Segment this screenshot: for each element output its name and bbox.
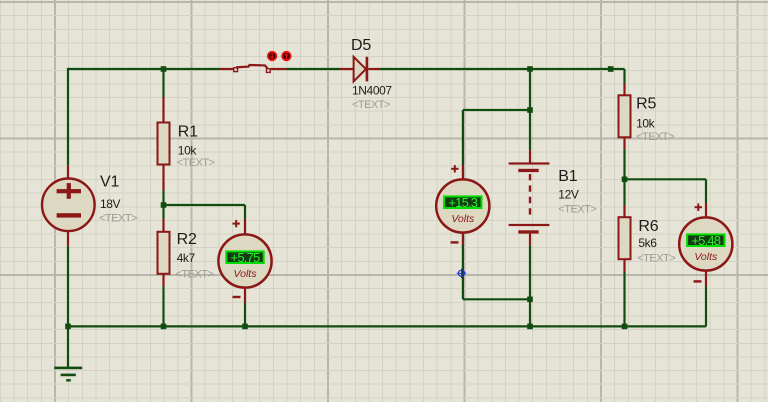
value 4k7 (177, 251, 196, 265)
wire V1 top lead vertical (67, 68, 69, 178)
label R2 TEXT placeholder (175, 269, 213, 281)
svg-text:R1: R1 (178, 124, 198, 141)
node junction VM2 return joins B1 net (527, 297, 533, 303)
label R6 (638, 218, 658, 235)
wire R2 top lead (162, 205, 164, 232)
origin marker (blue) on VM2 return wire (457, 269, 467, 279)
wire R5 top lead (623, 69, 625, 96)
svg-text:D5: D5 (351, 37, 371, 54)
wire V1 bottom lead (67, 232, 69, 327)
value 10k (R5) (636, 117, 656, 131)
svg-text:5k6: 5k6 (638, 236, 657, 250)
wire B1 bottom lead vertical (529, 234, 531, 327)
voltmeter VM2 plus mark (451, 165, 458, 172)
wire R5 bottom lead (623, 137, 625, 179)
diode D5 cathode lead (368, 68, 380, 70)
svg-text:12V: 12V (558, 188, 579, 202)
voltage source V1 (42, 179, 95, 232)
voltmeter VM1 minus mark (233, 296, 241, 298)
label R5 (636, 96, 656, 113)
label B1 TEXT placeholder (558, 204, 596, 216)
voltmeter VM1 plus mark (233, 220, 240, 227)
ground symbol (54, 326, 82, 381)
voltmeter VM1 (218, 234, 271, 287)
wire R6 top lead (623, 179, 625, 217)
label D5 TEXT placeholder (352, 99, 390, 111)
value 10k (R1) (178, 144, 198, 158)
label D5 (351, 37, 371, 54)
voltmeter VM3 plus mark (695, 204, 702, 211)
wire B1 top lead vertical (529, 69, 531, 163)
svg-text:<TEXT>: <TEXT> (175, 269, 213, 281)
svg-text:R5: R5 (636, 96, 656, 113)
svg-text:<TEXT>: <TEXT> (99, 213, 137, 225)
wire R6 bottom lead (623, 259, 625, 326)
wire R2 bottom lead (162, 273, 164, 326)
svg-text:<TEXT>: <TEXT> (177, 157, 215, 169)
diode D5 anode lead (340, 68, 354, 70)
label R6 TEXT placeholder (637, 253, 675, 265)
svg-text:<TEXT>: <TEXT> (637, 253, 675, 265)
svg-text:10k: 10k (636, 117, 656, 131)
wire top horizontal net from V1 to R5 (68, 68, 625, 70)
battery B1 (509, 162, 550, 233)
value 12V (558, 188, 579, 202)
value 5k6 (638, 236, 657, 250)
value 18V (100, 197, 121, 211)
label R1 TEXT placeholder (177, 157, 215, 169)
wire R1 top lead (162, 69, 164, 123)
svg-text:Volts: Volts (234, 268, 258, 280)
label R2 (177, 231, 197, 248)
svg-text:R2: R2 (177, 231, 197, 248)
switch SW1 actuator button down-arrow (268, 52, 276, 60)
node junction R5/R6/VM3 (622, 177, 628, 183)
svg-text:Volts: Volts (694, 251, 718, 263)
svg-text:+15.3: +15.3 (448, 195, 477, 210)
voltmeter VM2 (436, 179, 489, 232)
resistor R1 (158, 123, 170, 165)
wire R1 bottom lead (162, 165, 164, 206)
node junction R2 bottom on bottom net (161, 324, 167, 330)
svg-text:<TEXT>: <TEXT> (636, 131, 674, 143)
wire VM1 bottom lead (244, 288, 246, 326)
wire from B1 branch to VM2 top (463, 110, 530, 180)
label V1 TEXT placeholder (99, 213, 137, 225)
node junction B1 branch on top wire (527, 66, 533, 72)
wire VM2 bottom lead and return to B1 net (463, 233, 530, 299)
resistor R2 (158, 232, 170, 274)
node junction near R5 corner on top wire (608, 66, 614, 72)
voltmeter VM2 minus mark (451, 241, 459, 243)
node junction B1 bottom on bottom net (527, 324, 533, 330)
node junction VM1 bottom on bottom net (242, 324, 248, 330)
svg-text:V1: V1 (100, 174, 119, 191)
svg-text:Volts: Volts (451, 213, 475, 225)
wire VM3 bottom lead (705, 271, 707, 326)
svg-text:B1: B1 (558, 168, 577, 185)
svg-text:R6: R6 (638, 218, 658, 235)
switch SW1 left contact square (234, 68, 238, 72)
wire from R5/R6 node to VM3 top (625, 179, 707, 217)
wire from R1/R2 node to voltmeter VM1 plus (164, 205, 246, 235)
svg-text:18V: 18V (100, 197, 121, 211)
svg-text:<TEXT>: <TEXT> (352, 99, 390, 111)
label R1 (178, 124, 198, 141)
node junction VM2 branch (527, 107, 533, 113)
node junction R1 top on top wire (161, 66, 167, 72)
resistor R6 (619, 217, 631, 259)
node junction V1/ground on bottom net (65, 324, 71, 330)
switch SW1 actuator button up-arrow (282, 52, 290, 60)
svg-text:1N4007: 1N4007 (352, 84, 392, 98)
svg-text:<TEXT>: <TEXT> (558, 204, 596, 216)
label R5 TEXT placeholder (636, 131, 674, 143)
svg-text:4k7: 4k7 (177, 251, 196, 265)
value 1N4007 (352, 84, 392, 98)
switch SW1 right lead (271, 68, 287, 70)
voltmeter VM3 minus mark (694, 280, 702, 282)
wire bottom horizontal ground net (68, 325, 706, 327)
label V1 (100, 174, 119, 191)
switch SW1 left lead (219, 68, 233, 70)
svg-text:10k: 10k (178, 144, 198, 158)
node junction R6 bottom on bottom net (622, 324, 628, 330)
switch SW1 right contact square (267, 69, 271, 73)
svg-text:+5.48: +5.48 (691, 233, 720, 248)
node junction between R1 and R2 (161, 202, 167, 208)
voltmeter VM3 (679, 217, 732, 270)
diode D5 body (354, 57, 369, 82)
label B1 (558, 168, 577, 185)
svg-text:+5.75: +5.75 (231, 250, 260, 265)
resistor R5 (619, 95, 631, 137)
switch SW1 arm (open) (236, 65, 268, 68)
